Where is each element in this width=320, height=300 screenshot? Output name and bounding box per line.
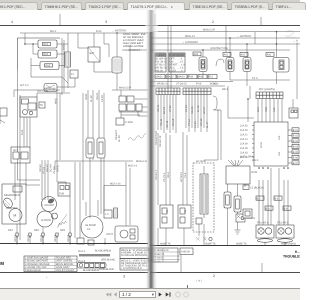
connector J1 xyxy=(226,58,234,72)
svg-text:APRES LA POSE: APRES LA POSE xyxy=(123,45,144,48)
svg-text:2: 2 xyxy=(212,20,214,24)
legend table xyxy=(24,256,77,272)
svg-text:VOUT: VOUT xyxy=(106,233,113,236)
boxed labels lamp wires xyxy=(256,196,291,210)
component C3000 box xyxy=(116,118,134,125)
X-box component xyxy=(236,214,255,222)
svg-text:MA-X: MA-X xyxy=(252,159,259,162)
node junction top-left xyxy=(24,43,26,45)
svg-text:ANSE TK: ANSE TK xyxy=(205,242,216,245)
svg-text:NR-03: NR-03 xyxy=(40,234,43,242)
svg-text:NR3: NR3 xyxy=(60,229,66,232)
svg-text:B-07: B-07 xyxy=(293,162,299,165)
wire label row2 xyxy=(150,81,233,83)
ECU right pin rows xyxy=(288,128,299,165)
wire J3 bottom xyxy=(276,72,278,80)
wire relay K3 right xyxy=(59,65,64,67)
svg-text:Y02-1 AM: Y02-1 AM xyxy=(37,90,48,93)
svg-text:3: 3 xyxy=(123,275,125,279)
tail lamp right xyxy=(276,225,294,242)
fuel pump circle xyxy=(81,216,103,238)
svg-text:R03: R03 xyxy=(46,65,51,68)
label row boxed P08 xyxy=(155,75,217,79)
right edge connector component xyxy=(289,108,298,118)
zone tick 2/1 xyxy=(260,17,262,25)
svg-text:M: M xyxy=(14,214,17,218)
svg-text:MA-X: MA-X xyxy=(50,30,57,33)
svg-text:→ BATTERY: → BATTERY xyxy=(237,35,252,38)
svg-text:J1A 21: J1A 21 xyxy=(240,134,248,137)
svg-text:MAG CLIP: MAG CLIP xyxy=(119,87,131,90)
svg-text:J1A 05: J1A 05 xyxy=(240,147,248,150)
svg-text:VT-JN 03: VT-JN 03 xyxy=(176,83,187,86)
ECU left pin wires xyxy=(252,126,254,158)
wire dashed box stubs xyxy=(199,166,204,240)
node J1 xyxy=(229,37,231,39)
svg-text:J1E: J1E xyxy=(278,151,281,156)
component small TO box xyxy=(39,102,45,108)
tail lamp left xyxy=(256,225,274,242)
component 1F box xyxy=(104,210,112,218)
rotated labels wire array row2 xyxy=(160,118,209,128)
svg-text:P11: P11 xyxy=(209,76,214,79)
svg-text:NR-4: NR-4 xyxy=(222,88,228,91)
svg-text:MRG 4.0: MRG 4.0 xyxy=(185,35,196,38)
svg-text:TOR: TOR xyxy=(59,193,64,196)
spring sketch xyxy=(128,133,146,140)
svg-text:B-01: B-01 xyxy=(293,129,299,132)
svg-text:MAG2: MAG2 xyxy=(167,76,175,79)
node K1 xyxy=(32,43,34,45)
zone tick 3/2 xyxy=(154,14,156,25)
wire verticals mid page xyxy=(83,90,104,160)
svg-text:J1A 09: J1A 09 xyxy=(240,143,248,146)
svg-text:B-02: B-02 xyxy=(63,44,66,50)
wire ECM2 drops xyxy=(228,184,246,245)
svg-text:ECM: ECM xyxy=(252,171,258,174)
svg-text:+ KYMTRON 25-D: + KYMTRON 25-D xyxy=(121,267,142,270)
svg-text:NR-04: NR-04 xyxy=(54,234,57,242)
wire diag connections xyxy=(57,77,75,87)
svg-text:GR-16: GR-16 xyxy=(200,118,203,126)
text table block 1 xyxy=(155,53,168,73)
wire long vertical x57 xyxy=(57,90,60,182)
svg-text:AC 3000: AC 3000 xyxy=(196,160,206,163)
funnel wire bundle xyxy=(228,160,243,166)
label column rotated desactive xyxy=(115,129,121,142)
wire J1 top xyxy=(229,38,231,58)
svg-text:LOCK . . . 0: LOCK . . . 0 xyxy=(170,70,184,73)
svg-text:NR2: NR2 xyxy=(265,106,268,112)
bottom rail right page xyxy=(150,245,300,247)
svg-text:ALT 4.0: ALT 4.0 xyxy=(20,84,29,87)
svg-text:1 VOLANT: 1 VOLANT xyxy=(42,204,55,207)
svg-text:A01: A01 xyxy=(224,54,229,57)
wire right column lower left page xyxy=(104,162,130,240)
labels rotated wire bundle xyxy=(85,92,104,102)
wire ECU left feeds xyxy=(228,86,254,122)
fuse F3 xyxy=(97,138,105,158)
wire bottom right rail verticals xyxy=(158,228,285,245)
svg-text:DEMARREUR: DEMARREUR xyxy=(4,194,20,197)
bottom rail line xyxy=(0,243,148,245)
svg-text:R02: R02 xyxy=(44,53,49,56)
relay K2 xyxy=(38,50,57,58)
svg-text:NR-02: NR-02 xyxy=(27,234,30,242)
VOUT module xyxy=(106,226,138,242)
svg-text:ANSE TK: ANSE TK xyxy=(160,242,171,245)
comb connector array 1 xyxy=(156,88,180,95)
wire main top bus left page xyxy=(20,32,148,34)
svg-text:J1A: J1A xyxy=(278,135,281,140)
node coil xyxy=(116,32,118,34)
svg-text:A05: A05 xyxy=(194,53,199,56)
svg-text:TO: TO xyxy=(40,104,43,107)
svg-text:JN-04: JN-04 xyxy=(185,105,188,112)
svg-text:A02: A02 xyxy=(241,54,246,57)
svg-text:BL-02: BL-02 xyxy=(90,95,93,102)
solenoid cluster box xyxy=(20,97,37,117)
relay R4 xyxy=(160,205,173,228)
svg-text:J1A 30: J1A 30 xyxy=(240,125,248,128)
wire relay K2 right xyxy=(57,53,68,55)
svg-text:NR1: NR1 xyxy=(8,229,14,232)
svg-text:B-04: B-04 xyxy=(293,146,299,149)
wire relay feed vertical xyxy=(24,33,26,44)
svg-text:GR-07: GR-07 xyxy=(203,106,206,114)
svg-text:NR-05: NR-05 xyxy=(67,234,70,242)
svg-text:→ CONTACT: → CONTACT xyxy=(125,49,141,52)
note text block xyxy=(123,33,146,48)
node ECU feed xyxy=(247,98,249,100)
svg-text:+: + xyxy=(46,276,48,279)
X symbols bottom mid xyxy=(196,237,212,241)
wire drops from comb 2 xyxy=(186,95,207,132)
svg-text:B-6: B-6 xyxy=(266,207,271,210)
ECM2 box xyxy=(226,166,257,184)
labels above rail xyxy=(8,229,66,232)
rail tick pads xyxy=(16,233,71,236)
wire cluster drop wires xyxy=(24,117,30,147)
svg-text:JN3: JN3 xyxy=(273,107,276,112)
svg-text:A03: A03 xyxy=(267,54,272,57)
svg-text:P02 (LIGHTS): P02 (LIGHTS) xyxy=(259,88,275,91)
lamp wire junction dots xyxy=(258,167,289,169)
svg-text:NOIR: NOIR xyxy=(85,94,88,100)
wire zone drop x226 xyxy=(225,25,227,52)
rotated labels relay feeds xyxy=(155,169,187,182)
wire relay K2 left xyxy=(33,53,38,55)
svg-text:P-09: P-09 xyxy=(196,83,202,86)
svg-text:DU RELAIS PRINCIPAL: DU RELAIS PRINCIPAL xyxy=(121,254,149,257)
label TROUBLESHOOTING xyxy=(283,250,318,258)
svg-text:M32 4-16: M32 4-16 xyxy=(110,183,121,186)
svg-text:B-2: B-2 xyxy=(257,197,262,200)
svg-text:1 of 1: 1 of 1 xyxy=(196,280,203,283)
note block bottom right of left page xyxy=(120,248,152,270)
svg-text:R-04: R-04 xyxy=(96,30,102,33)
svg-text:ALTERN: ALTERN xyxy=(41,219,51,222)
connector pin labels above xyxy=(193,52,274,57)
svg-text:VT-02: VT-02 xyxy=(169,105,172,112)
svg-text:3: 3 xyxy=(105,20,107,24)
svg-text:ACT: ACT xyxy=(13,149,18,152)
wire right edge drops xyxy=(293,43,297,109)
wire drops to magneto xyxy=(42,160,66,200)
svg-text:B-05: B-05 xyxy=(21,129,24,135)
svg-text:J1A 03: J1A 03 xyxy=(240,152,248,155)
battery box xyxy=(88,47,100,62)
svg-text:MAG CLIP: MAG CLIP xyxy=(203,29,215,32)
label SHT rows xyxy=(240,156,259,163)
wire contact line xyxy=(117,45,147,91)
svg-text:(CONTACT ON): (CONTACT ON) xyxy=(210,47,228,50)
svg-text:BC-2: BC-2 xyxy=(213,83,219,86)
wire left bus vertical xyxy=(18,95,41,240)
svg-text:B-4: B-4 xyxy=(275,197,280,200)
wire cluster to C3000 xyxy=(121,111,148,118)
rail tick dots xyxy=(16,236,70,237)
wire battery top xyxy=(78,33,94,48)
fuse below ECM2 right xyxy=(234,196,241,212)
svg-text:JN-15: JN-15 xyxy=(194,121,197,128)
svg-text:TROUBLESHOOTING: TROUBLESHOOTING xyxy=(283,254,300,258)
rail junction dots xyxy=(16,243,106,245)
wire bottom of relay block xyxy=(18,70,63,95)
svg-text:B-06: B-06 xyxy=(293,157,299,160)
wire horizontal row160 xyxy=(55,161,133,170)
svg-text:RG-11: RG-11 xyxy=(160,118,163,126)
ignition coil hatched xyxy=(112,57,122,73)
rotated label column mid right page xyxy=(155,130,162,147)
wire right top row4 xyxy=(150,49,290,51)
svg-text:VER-BLANC: VER-BLANC xyxy=(101,259,116,262)
wire J1 bottom xyxy=(229,72,231,81)
svg-text:C2 (BLACK): C2 (BLACK) xyxy=(250,187,264,190)
fuse F2 xyxy=(86,138,94,158)
wire bundle labels left xyxy=(39,164,60,174)
svg-text:BC-05: BC-05 xyxy=(163,106,166,114)
wire J2 bottom xyxy=(246,72,248,81)
svg-text:BC-13: BC-13 xyxy=(172,118,175,126)
svg-text:B-05: B-05 xyxy=(293,151,299,154)
svg-text:NOIR/BLANC: NOIR/BLANC xyxy=(99,268,114,271)
svg-text:→ A: → A xyxy=(293,40,298,43)
connector strip J5 xyxy=(78,262,107,268)
watermark smudge top right xyxy=(286,31,295,38)
svg-text:1G: 1G xyxy=(87,228,90,231)
svg-text:FEU AR D: FEU AR D xyxy=(277,222,289,225)
wire pump drops xyxy=(75,162,98,238)
svg-text:C 3000: C 3000 xyxy=(125,121,134,124)
component rounded B xyxy=(44,84,57,92)
ECU left pin labels xyxy=(240,125,248,160)
svg-text:MAG3: MAG3 xyxy=(178,76,186,79)
svg-text:5 BLEU BLUE: 5 BLEU BLUE xyxy=(25,269,41,272)
wire battery to coil xyxy=(94,62,112,72)
svg-text:VT-14: VT-14 xyxy=(188,119,191,126)
coil winding xyxy=(57,214,67,228)
wire mid horizontal Y02 xyxy=(37,93,70,97)
fuse below ECM2 left xyxy=(224,192,231,208)
wire divider vertical bottom right xyxy=(180,255,182,273)
label C2 BLACK xyxy=(243,185,264,190)
wire row y90 xyxy=(14,90,60,97)
wire below fuses xyxy=(83,158,104,218)
fold shadow xyxy=(145,10,158,288)
wire right top row1 xyxy=(150,31,300,33)
svg-text:→ ALTERNAT.: → ALTERNAT. xyxy=(182,41,198,44)
svg-text:NR2: NR2 xyxy=(34,229,40,232)
svg-text:ANSE (MAG): ANSE (MAG) xyxy=(281,242,296,245)
bottom frame line right page xyxy=(150,272,300,274)
rotated labels P02 drops xyxy=(257,106,276,112)
svg-text:B-8: B-8 xyxy=(284,207,289,210)
rail labels rotated xyxy=(14,234,70,242)
small component left of lamps xyxy=(243,209,252,218)
svg-text:1.0: 1.0 xyxy=(105,213,109,216)
svg-text:J5 A-2: J5 A-2 xyxy=(78,250,86,253)
node J2 xyxy=(246,43,248,45)
relay K3 xyxy=(40,62,59,70)
dashed module box xyxy=(193,163,214,232)
wire J2 top xyxy=(247,32,255,58)
svg-text:JN 6: JN 6 xyxy=(184,172,187,178)
svg-text:2: 2 xyxy=(213,274,215,278)
wire J5 top xyxy=(202,50,204,57)
zone tick 4/3 xyxy=(59,14,61,25)
relay block outline xyxy=(18,38,61,70)
svg-text:ANSE TK: ANSE TK xyxy=(236,242,247,245)
wire row right under connectors xyxy=(230,80,290,86)
svg-text:1B PUMP: 1B PUMP xyxy=(85,224,96,227)
wire cluster to right xyxy=(119,99,148,115)
magneto circle cluster xyxy=(37,197,58,228)
misc labels mid right xyxy=(213,83,228,92)
svg-text:BL-17: BL-17 xyxy=(206,121,209,128)
left edge connector xyxy=(0,108,7,124)
svg-text:P09: P09 xyxy=(199,76,204,79)
svg-text:K…: K… xyxy=(295,250,300,254)
ACC component box xyxy=(11,147,30,163)
svg-text:R01: R01 xyxy=(44,43,49,46)
bottom table right 2 xyxy=(180,248,193,255)
svg-text:4: 4 xyxy=(11,20,13,24)
bottom table right 1 xyxy=(152,248,180,264)
wire long vertical pair right page xyxy=(168,26,171,92)
wire bracket drops xyxy=(204,110,221,160)
top border frame line xyxy=(0,25,300,27)
rotated labels wire array xyxy=(157,104,206,114)
hatched coil component xyxy=(65,52,71,67)
wire label row3 xyxy=(150,85,225,87)
connector J2 xyxy=(243,58,251,72)
wire drops from comb 1 xyxy=(158,95,176,133)
hatched small element xyxy=(114,208,118,218)
svg-text:RG-01: RG-01 xyxy=(96,92,99,100)
svg-text:GR-BL: GR-BL xyxy=(57,164,60,172)
component small box A xyxy=(70,70,78,78)
label rows above ECM2 xyxy=(0,0,1,1)
wire MAG CLIP row xyxy=(112,90,148,96)
svg-text:ECM: ECM xyxy=(260,142,263,148)
rail labels ANSE xyxy=(160,242,296,245)
connector J3 xyxy=(273,58,289,73)
svg-text:BL-09: BL-09 xyxy=(118,135,121,142)
svg-text:J1A 29: J1A 29 xyxy=(240,129,248,132)
TOR component box xyxy=(58,183,70,196)
svg-text:NR-01: NR-01 xyxy=(14,234,17,242)
relay R5 xyxy=(178,205,191,228)
hook symbol xyxy=(216,59,224,66)
wire mid drops to relays xyxy=(158,132,187,205)
wire right top row3 xyxy=(150,43,300,45)
svg-text:VT-JN 3: VT-JN 3 xyxy=(163,172,166,182)
tick above right frame xyxy=(261,263,263,273)
wire lamp drops xyxy=(259,168,288,225)
svg-text:RG 4: RG 4 xyxy=(167,172,170,178)
svg-text:B-03: B-03 xyxy=(293,140,299,143)
svg-text:STARTER: STARTER xyxy=(6,207,18,210)
svg-text:BC-NR 5: BC-NR 5 xyxy=(180,171,183,182)
comb connector P02 xyxy=(256,92,283,99)
svg-text:BAT: BAT xyxy=(90,52,95,55)
pump terminals xyxy=(77,238,94,245)
starter dashed box xyxy=(2,184,26,224)
connector bar xyxy=(79,254,110,256)
svg-text:NR-BC 01: NR-BC 01 xyxy=(157,83,169,86)
svg-text:BC1: BC1 xyxy=(257,107,260,112)
wire J3 top xyxy=(276,32,278,58)
svg-text:MAG: MAG xyxy=(55,98,58,104)
wire below ACC xyxy=(15,163,40,200)
svg-text:BLANC/BRUN: BLANC/BRUN xyxy=(83,269,99,272)
wire starter to rail xyxy=(17,196,70,244)
wire relay K1 right xyxy=(57,43,68,45)
wire drops P02 to ECU xyxy=(258,99,282,122)
svg-text:FEU AR G: FEU AR G xyxy=(257,222,269,225)
svg-text:JN-03: JN-03 xyxy=(101,95,104,102)
svg-text:RG-06: RG-06 xyxy=(191,106,194,114)
wire right top row2 xyxy=(150,37,300,39)
svg-text:J1A 14: J1A 14 xyxy=(240,138,248,141)
svg-text:M32 4-0: M32 4-0 xyxy=(128,165,138,168)
rail ticks xyxy=(17,236,105,243)
svg-text:BL-03: BL-03 xyxy=(197,105,200,112)
label row2 texts xyxy=(157,83,218,86)
wire relay K3 left xyxy=(31,58,40,77)
svg-text:A-BC05: A-BC05 xyxy=(181,250,190,253)
wire bus right of relays xyxy=(62,33,68,95)
svg-text:P08: P08 xyxy=(189,76,194,79)
wire coil top xyxy=(116,33,118,57)
ECU box xyxy=(254,122,288,166)
node J3 xyxy=(276,31,278,33)
ground symbol ECM2 xyxy=(235,222,241,234)
svg-text:C2-A: C2-A xyxy=(252,77,258,80)
node J5 xyxy=(202,49,204,51)
svg-text:B-02: B-02 xyxy=(293,135,299,138)
bracket component right of array xyxy=(213,96,217,110)
page curl tick xyxy=(187,285,189,289)
svg-text:BLANC/BRUN: BLANC/BRUN xyxy=(95,250,111,253)
wire battery side xyxy=(104,33,109,57)
relay K1 xyxy=(38,40,57,48)
comb connector array 2 xyxy=(183,88,211,95)
wire relay K1 left xyxy=(25,44,38,54)
connector J5 right page xyxy=(199,57,207,72)
module cluster boxes xyxy=(119,96,142,111)
